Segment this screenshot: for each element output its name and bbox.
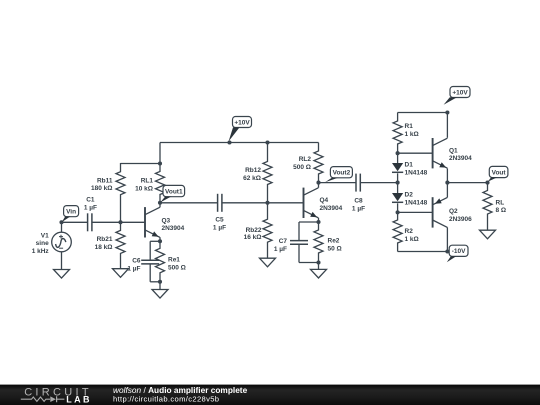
svg-text:Re1: Re1 bbox=[168, 256, 180, 263]
svg-text:C1: C1 bbox=[86, 196, 95, 203]
svg-text:-10V: -10V bbox=[452, 248, 466, 255]
svg-text:18 kΩ: 18 kΩ bbox=[95, 244, 113, 251]
svg-text:Vin: Vin bbox=[66, 209, 76, 216]
svg-text:Q3: Q3 bbox=[162, 217, 171, 224]
svg-text:2N3904: 2N3904 bbox=[449, 155, 472, 162]
svg-text:RL2: RL2 bbox=[299, 156, 312, 163]
svg-text:Rb22: Rb22 bbox=[246, 227, 262, 234]
svg-text:62 kΩ: 62 kΩ bbox=[243, 175, 261, 182]
svg-text:16 kΩ: 16 kΩ bbox=[244, 234, 262, 241]
svg-text:C8: C8 bbox=[354, 197, 363, 204]
svg-text:sine: sine bbox=[36, 240, 49, 247]
svg-text:Vout2: Vout2 bbox=[333, 170, 351, 177]
svg-text:1N4148: 1N4148 bbox=[405, 199, 428, 206]
svg-text:500 Ω: 500 Ω bbox=[293, 164, 311, 171]
svg-text:1 kHz: 1 kHz bbox=[32, 248, 50, 255]
svg-text:Q4: Q4 bbox=[320, 197, 329, 204]
svg-text:Re2: Re2 bbox=[328, 237, 340, 244]
svg-text:1 kΩ: 1 kΩ bbox=[405, 131, 419, 138]
svg-text:1 µF: 1 µF bbox=[84, 204, 97, 211]
svg-text:8 Ω: 8 Ω bbox=[496, 207, 507, 214]
svg-text:1 µF: 1 µF bbox=[213, 225, 226, 232]
svg-text:R1: R1 bbox=[405, 123, 414, 130]
svg-text:Vout: Vout bbox=[492, 169, 507, 176]
svg-text:http://circuitlab.com/c228v5b: http://circuitlab.com/c228v5b bbox=[113, 395, 219, 404]
svg-text:1 µF: 1 µF bbox=[127, 266, 140, 273]
svg-text:Q1: Q1 bbox=[449, 147, 458, 154]
svg-text:+10V: +10V bbox=[234, 119, 250, 126]
svg-text:wolfson / Audio amplifier comp: wolfson / Audio amplifier complete bbox=[113, 385, 248, 395]
svg-text:10 kΩ: 10 kΩ bbox=[135, 185, 153, 192]
svg-text:RL1: RL1 bbox=[141, 178, 154, 185]
svg-text:1 µF: 1 µF bbox=[274, 246, 287, 253]
svg-text:180 kΩ: 180 kΩ bbox=[91, 185, 112, 192]
svg-text:2N3904: 2N3904 bbox=[162, 225, 185, 232]
svg-text:Rb21: Rb21 bbox=[97, 236, 113, 243]
svg-text:LAB: LAB bbox=[66, 395, 92, 405]
svg-text:2N3906: 2N3906 bbox=[449, 216, 472, 223]
svg-text:1N4148: 1N4148 bbox=[405, 169, 428, 176]
svg-text:2N3904: 2N3904 bbox=[320, 205, 343, 212]
svg-text:C6: C6 bbox=[132, 258, 141, 265]
svg-text:500 Ω: 500 Ω bbox=[168, 264, 186, 271]
svg-text:R2: R2 bbox=[405, 228, 414, 235]
svg-text:V1: V1 bbox=[41, 232, 49, 239]
svg-text:D1: D1 bbox=[405, 161, 414, 168]
svg-text:Vout1: Vout1 bbox=[165, 189, 183, 196]
svg-text:C5: C5 bbox=[215, 217, 224, 224]
svg-text:Rb11: Rb11 bbox=[97, 177, 113, 184]
svg-text:Q2: Q2 bbox=[449, 208, 458, 215]
svg-text:1 µF: 1 µF bbox=[352, 205, 365, 212]
svg-text:+10V: +10V bbox=[452, 89, 468, 96]
svg-text:50 Ω: 50 Ω bbox=[328, 245, 342, 252]
svg-text:1 kΩ: 1 kΩ bbox=[405, 236, 419, 243]
svg-text:RL: RL bbox=[496, 199, 505, 206]
svg-text:D2: D2 bbox=[405, 191, 414, 198]
svg-text:C7: C7 bbox=[279, 238, 288, 245]
svg-text:Rb12: Rb12 bbox=[245, 167, 261, 174]
